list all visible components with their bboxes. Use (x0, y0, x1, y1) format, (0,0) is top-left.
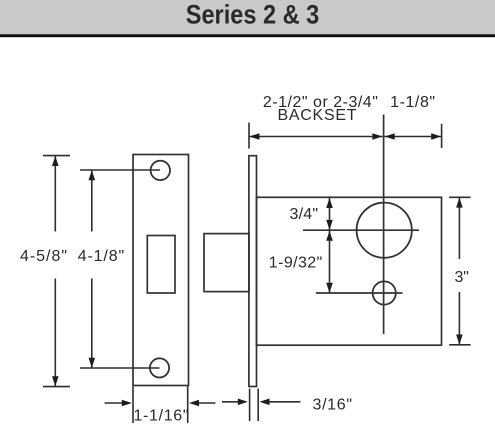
svg-text:4-5/8": 4-5/8" (20, 248, 67, 265)
svg-text:1-1/8": 1-1/8" (390, 94, 435, 111)
svg-text:Series 2 & 3: Series 2 & 3 (186, 0, 320, 30)
svg-text:BACKSET: BACKSET (278, 107, 357, 124)
svg-text:3": 3" (454, 269, 469, 286)
svg-text:3/16": 3/16" (313, 396, 353, 413)
svg-text:1-1/16": 1-1/16" (134, 407, 189, 424)
svg-text:3/4": 3/4" (290, 206, 319, 223)
svg-text:1-9/32": 1-9/32" (269, 255, 323, 272)
svg-text:4-1/8": 4-1/8" (78, 248, 125, 265)
